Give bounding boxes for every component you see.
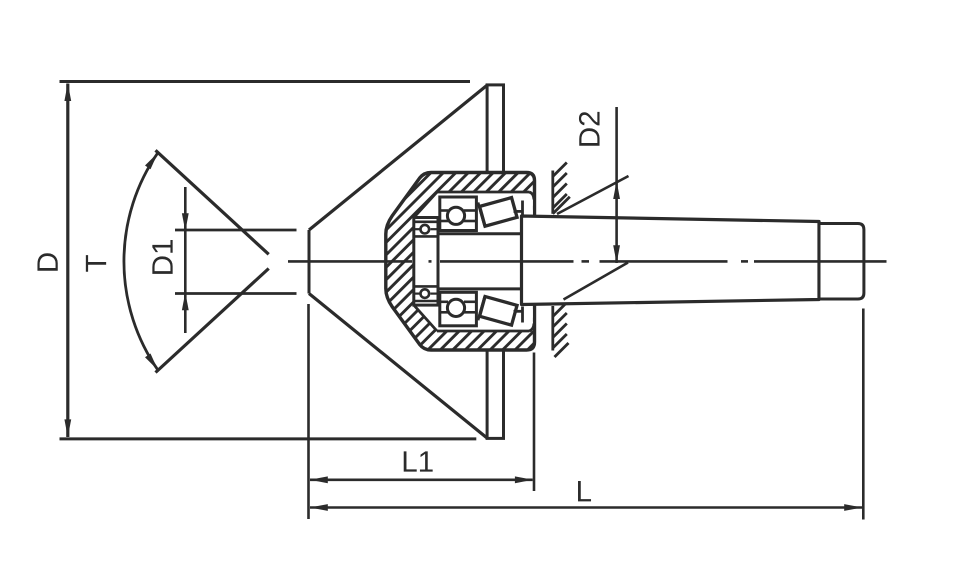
arc T bbox=[124, 153, 158, 371]
extension line D top bbox=[60, 80, 471, 83]
housing bore inner edges bbox=[437, 191, 529, 194]
taper line lower bbox=[156, 269, 269, 373]
label D bbox=[37, 253, 57, 270]
centerline axis bbox=[288, 260, 412, 263]
flange plate bbox=[487, 85, 503, 439]
cone upper edge bbox=[309, 85, 488, 230]
ball bearing top bbox=[440, 197, 477, 231]
label D2 bbox=[579, 112, 600, 146]
cone truncated tip bbox=[308, 230, 311, 294]
extension line D2 lower slanted bbox=[564, 263, 629, 300]
extension line tang end bbox=[862, 309, 865, 520]
small ball bearing top bbox=[414, 221, 438, 224]
ball bearing bottom bbox=[440, 292, 477, 326]
dimension line D bbox=[66, 84, 69, 438]
housing hub hatched body bbox=[386, 173, 535, 351]
taper shank bbox=[522, 216, 820, 305]
spindle shaft bottom line bbox=[438, 287, 522, 290]
label D1 bbox=[152, 240, 172, 274]
spindle nose sleeve bbox=[414, 218, 438, 306]
cone lower edge bbox=[309, 294, 488, 439]
extension line cone tip bbox=[307, 304, 310, 519]
extension line hub back face bbox=[533, 353, 536, 492]
taper line upper bbox=[156, 150, 269, 254]
dimension line L bbox=[310, 506, 862, 509]
extension line D1 top bbox=[175, 229, 297, 232]
dimension line D2 bbox=[615, 107, 618, 263]
extension line D1 bottom bbox=[175, 292, 297, 295]
small ball bearing bottom bbox=[414, 285, 438, 288]
label L bbox=[578, 481, 591, 501]
wall upper bbox=[551, 171, 554, 214]
extension line D2 upper slanted bbox=[557, 176, 629, 214]
spindle shaft top line bbox=[438, 232, 522, 235]
roller top bbox=[480, 198, 517, 227]
wall lower bbox=[551, 306, 554, 351]
label L1 bbox=[404, 451, 433, 471]
tang bbox=[819, 224, 864, 300]
roller bottom bbox=[480, 296, 517, 325]
housing bore cavity bbox=[414, 192, 533, 331]
dimension line L1 bbox=[310, 478, 533, 481]
shank shoulder bbox=[818, 222, 821, 300]
label T bbox=[86, 255, 106, 272]
dimension line D1 bbox=[184, 187, 187, 333]
extension line D bottom bbox=[60, 437, 477, 440]
